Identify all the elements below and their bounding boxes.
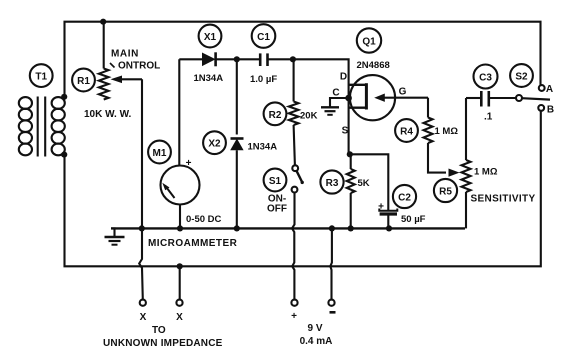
wire meter bottom through rails to X terminal right [179, 205, 181, 229]
svg-text:0.4 mA: 0.4 mA [300, 336, 333, 347]
svg-text:10K W. W.: 10K W. W. [84, 109, 131, 120]
diode X1 [179, 58, 202, 60]
wire S1 to battery plus [292, 193, 295, 300]
node T1 secondary bottom [61, 152, 67, 158]
svg-text:X: X [140, 312, 147, 323]
svg-text:R2: R2 [269, 110, 282, 121]
Q1 gate arrow [379, 97, 428, 99]
resistor R5 pot [465, 98, 467, 160]
node Q1 case junction [345, 95, 352, 102]
svg-text:G: G [399, 87, 407, 98]
svg-text:R3: R3 [326, 178, 339, 189]
svg-text:+: + [186, 158, 192, 169]
ground at common rail [111, 228, 115, 236]
svg-text:TO: TO [152, 325, 166, 336]
svg-text:C1: C1 [257, 32, 270, 43]
terminal B [538, 105, 544, 111]
svg-text:T1: T1 [35, 72, 47, 83]
switch S1 [292, 165, 298, 171]
svg-text:X2: X2 [208, 139, 221, 150]
transformer T1 core [37, 97, 39, 157]
svg-text:1 MΩ: 1 MΩ [474, 167, 498, 178]
transformer T1 primary coil [19, 97, 32, 109]
node rail1 x237 [234, 225, 240, 231]
wire top rail [65, 22, 541, 97]
node R1 top junction [100, 19, 106, 25]
svg-text:50 µF: 50 µF [401, 214, 426, 225]
wire Q1 case to ground [330, 98, 349, 107]
svg-text:X1: X1 [204, 32, 217, 43]
svg-text:2N4868: 2N4868 [357, 60, 390, 71]
switch S2 blade [522, 98, 550, 99]
svg-text:A: A [546, 84, 553, 95]
switch S2 pole [516, 95, 522, 101]
wire X1 branch left vertical (to meter) [178, 59, 180, 166]
transistor Q1 FET body [350, 75, 395, 120]
svg-text:S2: S2 [515, 72, 528, 83]
capacitor C3 [466, 97, 481, 99]
svg-text:1.0 µF: 1.0 µF [250, 74, 277, 85]
svg-text:C: C [332, 88, 339, 99]
svg-text:S1: S1 [269, 176, 282, 187]
svg-text:C3: C3 [479, 73, 492, 84]
diode X2 [236, 59, 238, 134]
transistor Q1 label [357, 28, 381, 52]
svg-text:M1: M1 [153, 148, 167, 159]
svg-text:X: X [176, 312, 183, 323]
wire C1 junction to Q1 drain [293, 59, 349, 76]
wire left vertical to bottom rail [65, 111, 541, 266]
svg-text:9 V: 9 V [307, 323, 322, 334]
battery plus terminal [291, 300, 297, 306]
meter needle [165, 186, 175, 199]
node T1 secondary top [61, 94, 67, 100]
svg-text:D: D [340, 72, 347, 83]
svg-text:1 MΩ: 1 MΩ [435, 126, 459, 137]
resistor R4 [427, 98, 429, 118]
microammeter M1 body [161, 166, 200, 205]
wire R2 to switch S1 [294, 125, 295, 165]
node C1-R2 junction [290, 56, 296, 62]
svg-text:20K: 20K [300, 111, 318, 122]
node rail1 battery minus [329, 225, 335, 231]
svg-text:R1: R1 [77, 76, 90, 87]
X terminal left [140, 300, 146, 306]
battery minus wire [330, 228, 332, 299]
svg-text:OFF: OFF [267, 204, 287, 215]
resistor R2 [293, 59, 295, 101]
svg-text:UNKNOWN IMPEDANCE: UNKNOWN IMPEDANCE [103, 338, 223, 349]
svg-text:MICROAMMETER: MICROAMMETER [148, 238, 238, 249]
svg-text:+: + [378, 202, 384, 213]
ground at Q1 case [321, 106, 339, 108]
svg-text:ONTROL: ONTROL [118, 61, 160, 72]
Q1 channel bar [365, 83, 368, 109]
svg-text:Q1: Q1 [362, 37, 376, 48]
capacitor C1 [237, 58, 260, 60]
svg-text:S: S [342, 126, 349, 137]
node rail1 R3 [348, 225, 354, 231]
svg-text:MAIN: MAIN [111, 49, 139, 60]
wire common rail (rail1) [111, 227, 465, 229]
transformer T1 secondary coil [52, 97, 65, 109]
svg-text:C2: C2 [398, 193, 411, 204]
svg-text:SENSITIVITY: SENSITIVITY [471, 194, 536, 205]
Q1 drain-source chord [348, 76, 350, 154]
svg-text:R4: R4 [400, 127, 413, 138]
node rail1 x142 [139, 225, 145, 231]
terminal A [539, 85, 545, 91]
svg-text:0-50 DC: 0-50 DC [186, 214, 222, 225]
wire from R1 wiper down to X terminal [139, 79, 143, 299]
node X1-X2 junction [234, 56, 240, 62]
microammeter M1 label [148, 141, 171, 164]
node rail1 x180 [177, 225, 183, 231]
svg-text:1N34A: 1N34A [248, 142, 278, 153]
svg-text:5K: 5K [358, 178, 370, 189]
svg-text:1N34A: 1N34A [194, 73, 224, 84]
resistor R3 [350, 154, 352, 169]
resistor R1 label [72, 69, 95, 92]
switch S2 label [510, 64, 533, 87]
transformer T1 label [30, 64, 53, 87]
node rail2 X right [177, 263, 183, 269]
X terminal right [176, 300, 182, 306]
svg-text:B: B [547, 105, 554, 116]
battery minus terminal [328, 300, 334, 306]
svg-text:.1: .1 [484, 112, 493, 123]
resistor R1 10K pot [103, 22, 105, 69]
svg-text:R5: R5 [439, 187, 452, 198]
svg-text:+: + [291, 311, 297, 322]
capacitor C2 [350, 154, 389, 210]
Q1 source stub [349, 106, 367, 108]
Q1 drain stub [349, 84, 367, 86]
wiper arrow of R1 [119, 78, 142, 80]
node Q1 source / R3 junction [347, 151, 353, 157]
node rail1 C2 [386, 225, 392, 231]
wire R4 to R5 wiper arrow [428, 143, 446, 173]
